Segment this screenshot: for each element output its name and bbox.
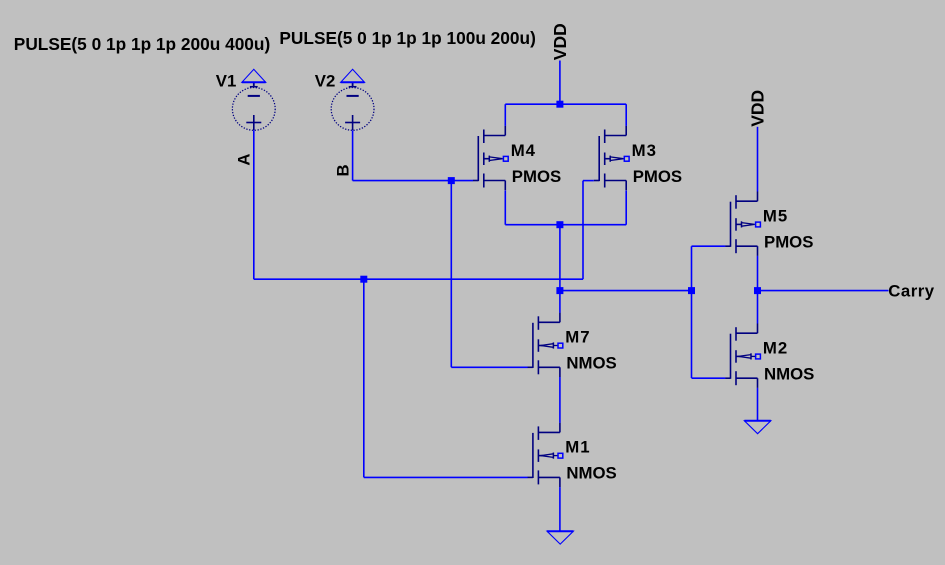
wire to M2 gate <box>692 377 726 379</box>
wire Carry output <box>758 290 889 292</box>
wire A column down <box>363 279 365 477</box>
transistor M5 (PMOS) <box>725 192 760 256</box>
transistor M2 (NMOS) <box>725 324 760 388</box>
wire out1 to M7 drain <box>559 291 561 313</box>
wire M1 source to ground <box>559 487 561 531</box>
wire inverter input column <box>691 246 693 378</box>
svg-text:V2: V2 <box>315 72 336 91</box>
wire VDD right to M5 drain <box>757 127 759 192</box>
svg-text:PULSE(5 0 1p 1p 1p 200u 400u): PULSE(5 0 1p 1p 1p 200u 400u) <box>14 34 270 54</box>
wire to M7 gate <box>451 366 527 368</box>
svg-text:M2: M2 <box>763 339 788 358</box>
transistor M7 (NMOS) <box>528 313 563 377</box>
wire node A row <box>254 278 583 280</box>
wire M2 source to ground <box>757 388 759 421</box>
svg-text:Carry: Carry <box>888 282 935 301</box>
wire rail to M3 drain <box>625 104 627 126</box>
wire M4 source down <box>504 190 506 224</box>
wire M3 source up <box>625 190 627 224</box>
wire A row up to M3 gate <box>582 181 584 280</box>
svg-text:VDD: VDD <box>550 23 570 60</box>
junction node B <box>448 177 455 184</box>
svg-text:M5: M5 <box>763 207 788 226</box>
junction out1 node <box>556 287 563 294</box>
svg-text:NMOS: NMOS <box>566 464 616 483</box>
junction node A <box>360 276 367 283</box>
wire to M1 gate <box>364 476 528 478</box>
ground below M2 <box>744 421 770 434</box>
svg-text:PMOS: PMOS <box>633 167 682 186</box>
transistor M4 (PMOS) <box>473 126 508 190</box>
wire V1 to node A row <box>253 130 255 279</box>
svg-text:NMOS: NMOS <box>764 365 814 384</box>
svg-text:A: A <box>235 153 254 165</box>
wire VDD label to top rail <box>559 61 561 105</box>
ground flag (0 node) above V2, pointing up <box>341 69 365 82</box>
wire output to M2 drain <box>757 291 759 324</box>
wire M7 source to M1 drain <box>559 377 561 423</box>
transistor M1 (NMOS) <box>528 423 563 487</box>
wire out1 row <box>560 290 692 292</box>
wire B column down <box>450 181 452 368</box>
svg-text:M4: M4 <box>511 141 536 160</box>
junction Carry node <box>754 287 761 294</box>
svg-text:NMOS: NMOS <box>566 354 616 373</box>
wire node B row to M4 gate <box>353 180 473 182</box>
svg-text:M7: M7 <box>565 328 590 347</box>
ground below M1 <box>547 531 573 544</box>
junction VDD rail <box>556 101 563 108</box>
wire rail down to out1 <box>559 225 561 291</box>
junction inverter input <box>688 287 695 294</box>
svg-text:V1: V1 <box>216 72 237 91</box>
junction PMOS source rail <box>556 221 563 228</box>
svg-text:PMOS: PMOS <box>512 167 561 186</box>
voltage source V2 <box>331 82 374 130</box>
wire PMOS common source rail <box>505 224 626 226</box>
wire rail to M4 drain <box>504 104 506 126</box>
ground flag (0 node) above V1, pointing up <box>242 69 266 82</box>
wire V2 down <box>352 130 354 180</box>
svg-text:M3: M3 <box>632 141 657 160</box>
svg-text:M1: M1 <box>565 438 590 457</box>
svg-text:VDD: VDD <box>748 90 768 127</box>
wire to M5 gate <box>692 245 726 247</box>
voltage source V1 <box>232 82 275 130</box>
wire to M3 gate pin <box>583 180 594 182</box>
wire M5 source to output <box>757 256 759 291</box>
svg-text:PULSE(5 0 1p 1p 1p 100u 200u): PULSE(5 0 1p 1p 1p 100u 200u) <box>279 28 535 48</box>
wire top VDD rail <box>505 103 626 105</box>
svg-text:PMOS: PMOS <box>764 233 813 252</box>
svg-text:B: B <box>333 164 352 176</box>
transistor M3 (PMOS) <box>594 126 629 190</box>
